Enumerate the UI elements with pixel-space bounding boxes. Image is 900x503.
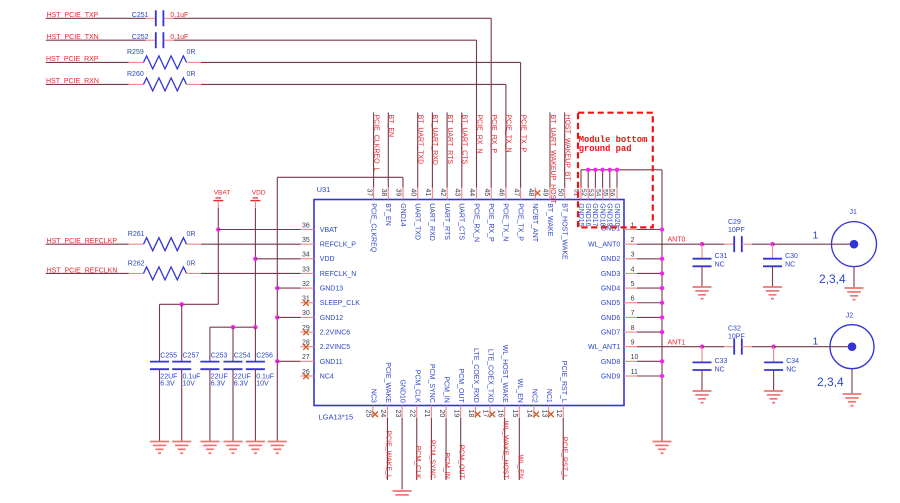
wire pin 11 to GND bus [637,375,662,377]
wire pin 5 to GND bus [637,287,662,289]
wire GND14 pin 39 route to ground [402,177,404,187]
svg-text:ANT0: ANT0 [668,237,686,244]
wire HST_PCIE_TXN left segment [46,39,146,41]
U31 pin 3 GND2 [624,258,637,260]
wire below pin 19 [460,418,462,480]
svg-text:GND20: GND20 [613,203,620,226]
svg-text:15: 15 [511,410,518,418]
svg-text:22UF: 22UF [160,373,177,380]
wire C252 to PCIE_RX_N drop [174,39,477,41]
svg-text:42: 42 [439,189,446,197]
svg-text:5: 5 [631,281,635,288]
svg-text:REFCLK_N: REFCLK_N [320,271,357,278]
wire stub above pin 42 [446,112,448,187]
resistor R262 0R [129,272,144,274]
junction ANT1/C33 [700,345,704,349]
U31 pin 13 NC1 (no-connect X) [548,406,550,419]
U31 pin 51 GND15 [580,188,582,200]
wire pin 6 to GND bus [637,302,662,304]
svg-text:2,3,4: 2,3,4 [819,272,846,286]
svg-text:GND10: GND10 [399,379,406,402]
ground under C31 [693,286,712,288]
annotation box: module bottom ground pad [578,113,653,228]
svg-text:6: 6 [631,296,635,303]
wire vertical drop to pin 45 [490,18,492,187]
svg-text:PCIE_CLKREQ: PCIE_CLKREQ [369,203,376,253]
U31 pin 38 BT_EN [387,188,389,200]
U31 pin 7 GND6 [624,316,637,318]
svg-text:BT_EN: BT_EN [384,203,391,226]
svg-text:U31: U31 [317,185,331,194]
U31 pin 23 GND10 [401,406,403,419]
capacitor C34 NC (shunt) [773,347,775,363]
svg-text:32: 32 [302,281,310,288]
svg-text:2.2VINC5: 2.2VINC5 [320,344,350,351]
wire pin 27 GND11 [277,360,300,362]
wire VBAT vertical rail [217,208,219,304]
svg-text:WL_WAKE_HOST: WL_WAKE_HOST [502,421,509,480]
svg-text:GND16: GND16 [584,203,591,226]
svg-text:GND14: GND14 [399,203,406,226]
svg-text:25: 25 [365,410,372,418]
svg-text:J1: J1 [850,209,858,216]
U31 pin 21 PCM_SYNC [430,406,432,419]
svg-text:PCM_OUT: PCM_OUT [457,369,464,404]
svg-text:50: 50 [556,189,563,197]
svg-text:C253: C253 [211,353,228,360]
svg-text:18: 18 [467,410,474,418]
wire pin 8 to GND bus [637,331,662,333]
ground under C33 [693,390,712,392]
svg-text:16: 16 [496,410,503,418]
ground under GND10 [393,490,412,492]
svg-text:REFCLK_P: REFCLK_P [320,242,357,249]
junction VBAT / pin36 [216,227,220,231]
wire R261 to pin 35 [201,243,301,245]
ground under J1 [853,267,855,288]
wire C29 to C30 node [752,243,773,245]
wire stub above pin 43 [461,112,463,187]
svg-text:VDD: VDD [320,256,335,263]
svg-text:0.1uF: 0.1uF [183,373,201,380]
wire HST_PCIE_REFCLKP [46,243,129,245]
svg-text:R260: R260 [127,71,144,78]
svg-text:0.1uF: 0.1uF [256,373,274,380]
U31 pin 8 GND7 [624,331,637,333]
U31 pin 9 WL_ANT1 [624,346,637,348]
U31 pin 11 GND9 [624,375,637,377]
svg-text:10: 10 [631,354,639,361]
svg-text:SLEEP_CLK: SLEEP_CLK [320,300,360,307]
svg-text:PCIE_TX_P: PCIE_TX_P [519,115,526,153]
svg-text:PCIE_TX_N: PCIE_TX_N [502,203,509,241]
U31 pin 34 VDD [301,258,315,260]
U31 pin 48 NC/BT_ANT (no-connect X) [534,188,536,200]
svg-text:6.3V: 6.3V [160,380,175,387]
svg-text:VBAT: VBAT [214,189,231,196]
svg-text:24: 24 [379,410,386,418]
svg-text:PCM_CLK: PCM_CLK [413,370,420,403]
svg-text:C257: C257 [183,353,200,360]
junction VDD rail tee [253,325,257,329]
svg-text:NC: NC [786,366,796,373]
wire down to C256 [254,327,256,361]
svg-text:40: 40 [409,189,416,197]
wire VDD vertical rail [254,208,256,327]
U31 pin 29 2.2VINC6 (no-connect X) [301,331,315,333]
capacitor C256 0.1uF 10V [246,361,265,363]
svg-text:14: 14 [526,410,533,418]
svg-text:GND8: GND8 [601,359,621,366]
svg-text:C254: C254 [234,353,251,360]
wire below pin 21 [430,418,432,480]
svg-text:13: 13 [540,410,547,418]
junction C29/C30 [770,242,774,246]
U31 pin 27 GND11 [301,360,315,362]
svg-text:C34: C34 [786,358,799,365]
ground under J2 [851,369,853,394]
wire pin 56 to bus with junction [616,170,618,188]
wire below pin 22 [416,418,418,480]
U31 pin 41 UART_RXD [431,188,433,200]
svg-text:56: 56 [609,189,616,197]
U31 pin 19 PCM_OUT [460,406,462,419]
wire down to C254 [232,327,234,361]
wire R262 to pin 33 [201,272,301,274]
ground under C253 [200,441,219,443]
svg-text:GND4: GND4 [601,286,621,293]
svg-text:2.2VINC6: 2.2VINC6 [320,329,350,336]
wire down to C253 [209,327,211,361]
svg-text:GND13: GND13 [320,286,343,293]
wire pin 4 to GND bus [637,272,662,274]
svg-text:UART_CTS: UART_CTS [458,203,465,240]
svg-text:33: 33 [302,266,310,273]
svg-text:43: 43 [454,189,461,197]
U31 pin 15 WL_EN [518,406,520,419]
svg-text:R259: R259 [127,49,144,56]
svg-text:52: 52 [580,189,587,197]
svg-text:PCIE_WAKE_L: PCIE_WAKE_L [384,430,391,478]
svg-text:C255: C255 [160,353,177,360]
U31 pin 46 PCIE_TX_N [505,188,507,200]
wire stub above pin 37 [373,112,375,187]
svg-text:2: 2 [631,237,635,244]
U31 pin 20 PCM_IN [445,406,447,419]
U31 pin 30 GND12 [301,316,315,318]
wire GND15-20 bus [581,169,662,171]
resistor R259 0R [129,61,144,63]
wire HST_PCIE_REFCLKN [46,272,129,274]
U31 pin 42 UART_RTS [446,188,448,200]
svg-text:BT_HOST_WAKE: BT_HOST_WAKE [561,203,568,260]
svg-text:LTE_COEX_RXD: LTE_COEX_RXD [472,348,479,403]
U31 pin 50 BT_HOST_WAKE [564,188,566,200]
svg-text:WL_HOST_WAKE: WL_HOST_WAKE [501,345,508,403]
U31 pin 37 PCIE_CLKREQ [373,188,375,200]
wire down to C255 [159,304,161,361]
svg-text:PCIE_WAKE: PCIE_WAKE [384,362,391,403]
svg-text:47: 47 [512,189,519,197]
capacitor C255 22UF 6.3V [150,361,169,363]
svg-text:PCM_SYNC: PCM_SYNC [428,440,435,479]
wire C34 node to J2 [774,346,830,348]
svg-text:GND19: GND19 [606,203,613,226]
svg-text:C252: C252 [132,34,149,41]
U31 pin 2 WL_ANT0 [624,243,637,245]
wire pin 53 to bus with junction [594,170,596,188]
wire pin 32 GND13 [277,287,300,289]
U31 pin 55 GND19 [609,188,611,200]
IC U31 wireless module body (LGA13*15) [314,200,624,406]
svg-text:NC/BT_ANT: NC/BT_ANT [531,203,538,243]
svg-text:6.3V: 6.3V [211,380,226,387]
svg-text:41: 41 [424,189,431,197]
svg-text:45: 45 [483,189,490,197]
junction ANT0/C31 [700,242,704,246]
svg-text:1: 1 [813,230,819,242]
svg-text:GND2: GND2 [601,256,621,263]
svg-text:54: 54 [594,189,601,197]
svg-text:22UF: 22UF [234,373,251,380]
U31 pin 6 GND5 [624,302,637,304]
capacitor C32 10PF (series) [733,339,735,355]
wire C32 to C34 node [752,346,774,348]
svg-text:PCIE_RX_P: PCIE_RX_P [487,203,494,242]
wire stub above pin 41 [431,112,433,187]
svg-text:UART_RXD: UART_RXD [428,203,435,241]
svg-text:J2: J2 [846,313,854,320]
wire pin 9 WL_ANT1 to C33 node [637,346,702,348]
svg-text:GND3: GND3 [601,271,621,278]
U31 pin 4 GND3 [624,272,637,274]
wire pin 3 to GND bus [637,258,662,260]
svg-text:PCIE_RST_L: PCIE_RST_L [560,437,567,479]
svg-text:LTE_COEX_TXD: LTE_COEX_TXD [487,349,494,403]
svg-text:WL_EN: WL_EN [516,455,523,479]
svg-text:GND5: GND5 [601,300,621,307]
junction GND13 pin 32 [275,286,279,290]
wire pin 51 to bus [580,170,582,188]
U31 pin 54 GND18 [602,188,604,200]
resistor R261 0R [129,243,144,245]
svg-text:23: 23 [394,410,401,418]
svg-text:PCM_IN: PCM_IN [443,376,450,402]
svg-text:22UF: 22UF [211,373,228,380]
svg-text:PCM_OUT: PCM_OUT [458,445,465,480]
U31 pin 43 UART_CTS [461,188,463,200]
svg-text:55: 55 [602,189,609,197]
junction VDD / pin34 [253,257,257,261]
wire HST_PCIE_RXP left segment [46,61,129,63]
wire R259 to PCIE_TX_P drop [201,61,521,63]
svg-text:C31: C31 [715,253,728,260]
wire pin 10 to GND bus [637,360,662,362]
ground under C257 [172,441,191,443]
svg-text:39: 39 [395,189,402,197]
svg-text:2,3,4: 2,3,4 [817,375,844,389]
U31 pin 49 BT_WAKE [549,188,551,200]
wire below pin 20 [445,418,447,480]
ground left GND net [268,441,287,443]
U31 pin 47 PCIE_TX_P [520,188,522,200]
svg-text:10V: 10V [183,380,196,387]
svg-text:GND6: GND6 [601,315,621,322]
U31 pin 28 2.2VINC5 (no-connect X) [301,346,315,348]
svg-text:10PF: 10PF [728,333,745,340]
wire pin 52 to bus with junction [587,170,589,188]
resistor R260 0R [129,83,144,85]
wire C251 to PCIE_RX_P drop [174,17,491,19]
svg-text:4: 4 [631,266,635,273]
svg-text:26: 26 [302,369,310,376]
wire pin 30 GND12 [277,316,300,318]
wire VDD rail horizontal to caps [210,326,256,328]
capacitor C252 0.1uF [146,39,156,41]
capacitor C29 10PF (series) [733,236,735,252]
junction C257 branch [180,302,184,306]
wire stub above pin 40 [417,112,419,187]
svg-text:C256: C256 [256,353,273,360]
svg-text:NC4: NC4 [320,373,334,380]
U31 pin 53 GND17 [594,188,596,200]
svg-text:PCIE_TX_P: PCIE_TX_P [516,203,523,241]
wire ANT0 node to C29 [702,243,724,245]
svg-text:WL_ANT0: WL_ANT0 [588,242,620,249]
svg-text:PCIE_TX_N: PCIE_TX_N [505,115,512,153]
svg-text:NC2: NC2 [530,389,537,403]
svg-text:49: 49 [542,189,549,197]
svg-text:C32: C32 [728,326,741,333]
svg-text:10PF: 10PF [728,227,745,234]
svg-text:C251: C251 [132,12,149,19]
svg-text:GND9: GND9 [601,373,621,380]
svg-text:VDD: VDD [252,189,266,196]
svg-text:ground pad: ground pad [579,144,632,154]
capacitor C253 22UF 6.3V [200,361,219,363]
wire C30 node to J1 [773,243,832,245]
svg-text:R261: R261 [128,231,145,238]
svg-text:46: 46 [498,189,505,197]
svg-text:0R: 0R [187,260,196,267]
wire R260 to PCIE_TX_N drop [201,83,506,85]
svg-text:1: 1 [813,336,819,348]
U31 pin 17 LTE_COEX_TXD (no-connect X) [489,406,491,419]
U31 pin 14 NC2 (no-connect X) [533,406,535,419]
U31 pin 33 REFCLK_N [301,272,315,274]
U31 pin 44 PCIE_RX_N [476,188,478,200]
svg-text:37: 37 [365,189,372,197]
ground under C34 [764,390,783,392]
svg-text:C33: C33 [715,358,728,365]
wire pin 7 to GND bus [637,316,662,318]
svg-text:11: 11 [631,369,638,376]
wire vertical drop to pin 47 [520,62,522,187]
wire below pin 12 [562,418,564,480]
svg-text:31: 31 [302,296,310,303]
junction GND11 pin 27 [275,359,279,363]
capacitor C254 22UF 6.3V [224,361,243,363]
U31 pin 40 UART_TXD [417,188,419,200]
U31 pin 39 GND14 [402,188,404,200]
ground under C30 [763,286,782,288]
svg-text:NC: NC [785,262,795,269]
capacitor C33 NC (shunt) [701,347,703,363]
wire stub above pin 38 [387,112,389,187]
svg-text:6.3V: 6.3V [234,380,249,387]
svg-text:UART_TXD: UART_TXD [414,203,421,240]
svg-text:38: 38 [380,189,387,197]
U31 pin 32 GND13 [301,287,315,289]
svg-text:0R: 0R [187,49,196,56]
capacitor C251 0.1uF [146,17,156,19]
wire pin 1 to GND bus [637,229,662,231]
svg-text:UART_RTS: UART_RTS [443,203,450,240]
junction C254 branch [231,325,235,329]
svg-text:BT_WAKE: BT_WAKE [546,203,553,237]
wire vertical drop to pin 44 [476,40,478,187]
junction C32/C34 [771,345,775,349]
wire down to C257 [181,304,183,361]
svg-text:ANT1: ANT1 [668,339,686,346]
svg-text:44: 44 [468,189,475,197]
U31 pin 36 VBAT [301,229,315,231]
svg-text:21: 21 [423,410,430,418]
wire pin 2 WL_ANT0 to C31 node [637,243,702,245]
ground under C256 [246,441,265,443]
wire stub above pin 49 [549,112,551,187]
svg-text:NC: NC [715,366,725,373]
svg-text:C30: C30 [785,253,798,260]
svg-text:GND17: GND17 [591,203,598,226]
svg-text:30: 30 [302,310,310,317]
U31 pin 52 GND16 [587,188,589,200]
svg-text:27: 27 [302,354,310,361]
svg-text:0R: 0R [187,71,196,78]
capacitor C257 0.1uF 10V [172,361,191,363]
svg-text:48: 48 [527,189,534,197]
U31 pin 26 NC4 (no-connect X) [301,375,315,377]
wire right GND bus vertical [661,170,663,442]
ground under C254 [224,441,243,443]
svg-text:R262: R262 [128,260,145,267]
wire HST_PCIE_TXP left segment [46,17,146,19]
wire pin 55 to bus with junction [609,170,611,188]
U31 pin 10 GND8 [624,360,637,362]
ground under C255 [150,441,169,443]
wire ANT1 node to C32 [702,346,724,348]
svg-text:GND12: GND12 [320,315,343,322]
U31 pin 18 LTE_COEX_RXD (no-connect X) [474,406,476,419]
svg-text:53: 53 [587,189,594,197]
svg-text:28: 28 [302,340,310,347]
svg-text:PCIE_RX_N: PCIE_RX_N [475,115,482,154]
svg-text:PCM_IN: PCM_IN [443,452,450,478]
svg-text:PCIE_RX_P: PCIE_RX_P [490,115,497,154]
wire HST_PCIE_RXN left segment [46,83,129,85]
svg-text:GND7: GND7 [601,329,621,336]
svg-text:NC: NC [715,262,725,269]
capacitor C31 NC (shunt) [701,244,703,259]
svg-text:GND11: GND11 [320,359,343,366]
svg-text:22: 22 [408,410,415,418]
svg-text:17: 17 [482,410,489,418]
svg-text:WL_EN: WL_EN [516,379,523,403]
svg-text:C29: C29 [728,219,741,226]
svg-text:NC1: NC1 [545,389,552,403]
svg-text:12: 12 [555,410,562,418]
wire pin 54 to bus with junction [602,170,604,188]
